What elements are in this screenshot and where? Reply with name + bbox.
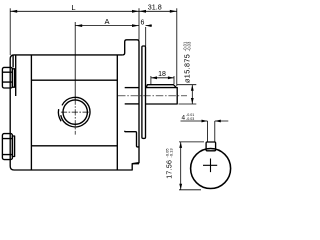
17.56 top arrow: [179, 142, 182, 148]
end view shaft circle: [191, 149, 231, 189]
17.56 ext top: [179, 141, 204, 143]
key (side view): [146, 85, 176, 88]
svg-text:17.56: 17.56: [167, 160, 174, 179]
port crosshair horizontal: [61, 111, 90, 113]
dia ext bottom: [179, 103, 197, 105]
dim 31.8 line: [139, 10, 177, 12]
L right arrow: [132, 10, 139, 13]
ext 18 left: [150, 76, 152, 84]
A left arrow: [75, 24, 82, 27]
end view key ext right: [214, 121, 216, 142]
bearing bore lower: [125, 103, 139, 105]
ext line flange face: [138, 8, 140, 40]
svg-text:18: 18: [158, 71, 166, 78]
4 left outside arrow: [202, 120, 208, 123]
svg-text:-0.03: -0.03: [186, 117, 194, 121]
ext line body left: [9, 8, 11, 55]
svg-text:-0.03: -0.03: [187, 41, 192, 51]
dim 4 line: [181, 120, 229, 122]
svg-text:A: A: [104, 17, 109, 26]
18 right arrow: [168, 76, 174, 79]
port crosshair vertical: [74, 99, 76, 135]
dia top arrow: [191, 85, 194, 91]
svg-text:4: 4: [182, 114, 186, 121]
port line lower: [31, 145, 117, 147]
17.56 bottom arrow: [179, 184, 182, 190]
arrowheads: [10, 10, 221, 190]
6 right outside arrow: [146, 24, 152, 27]
text 17.56 rotated: [165, 148, 174, 179]
L left arrow: [10, 10, 17, 13]
shaft centerline: [118, 95, 187, 97]
rear cover line: [30, 55, 32, 170]
port circle inner: [63, 100, 87, 124]
body outline: [10, 55, 139, 170]
flange inner step: [125, 131, 139, 147]
end view key ext left: [207, 121, 209, 142]
ext 18 right: [173, 76, 175, 84]
dimension texts: [71, 3, 194, 179]
flange plate: [123, 40, 139, 164]
hex plug bottom: [2, 134, 14, 160]
plug boss line top: [15, 55, 17, 96]
17.56 ext bottom: [179, 189, 201, 191]
dimension lines group: [10, 8, 228, 190]
svg-text:6: 6: [141, 20, 145, 27]
svg-text:L: L: [71, 3, 75, 12]
pilot boss: [142, 46, 146, 138]
dia bottom arrow: [191, 98, 194, 104]
port outer arc tail: [58, 109, 61, 121]
front cover line: [116, 55, 118, 170]
shaft: [146, 88, 178, 104]
port line upper: [31, 79, 117, 81]
31.8 right arrow: [170, 10, 177, 13]
dim L line: [10, 10, 139, 12]
end view center cross: [203, 159, 217, 173]
bearing bore upper: [125, 87, 139, 89]
svg-text:ø15.875: ø15.875: [183, 54, 192, 83]
svg-text:31.8: 31.8: [148, 3, 162, 12]
dim 17.56 line: [180, 142, 182, 190]
hex plug top: [2, 67, 14, 88]
dim 6 tail: [146, 25, 152, 27]
ext line pilot face: [145, 27, 147, 46]
cover step line top: [12, 55, 14, 68]
dia dim line: [191, 85, 193, 104]
4 right outside arrow: [215, 120, 221, 123]
18 left arrow: [151, 76, 157, 79]
port circle outer arc: [61, 97, 90, 127]
31.8 left arrow: [139, 10, 146, 13]
dim A line: [75, 25, 139, 27]
text dia 15.875 rotated: [182, 41, 191, 83]
dim 18 line: [151, 77, 174, 79]
A right arrow: [132, 24, 139, 27]
svg-text:-0.13: -0.13: [168, 148, 173, 158]
end view key: [206, 142, 216, 151]
ext line shaft end: [176, 8, 178, 86]
ext line A port: [74, 22, 76, 99]
dia ext top: [177, 84, 197, 86]
